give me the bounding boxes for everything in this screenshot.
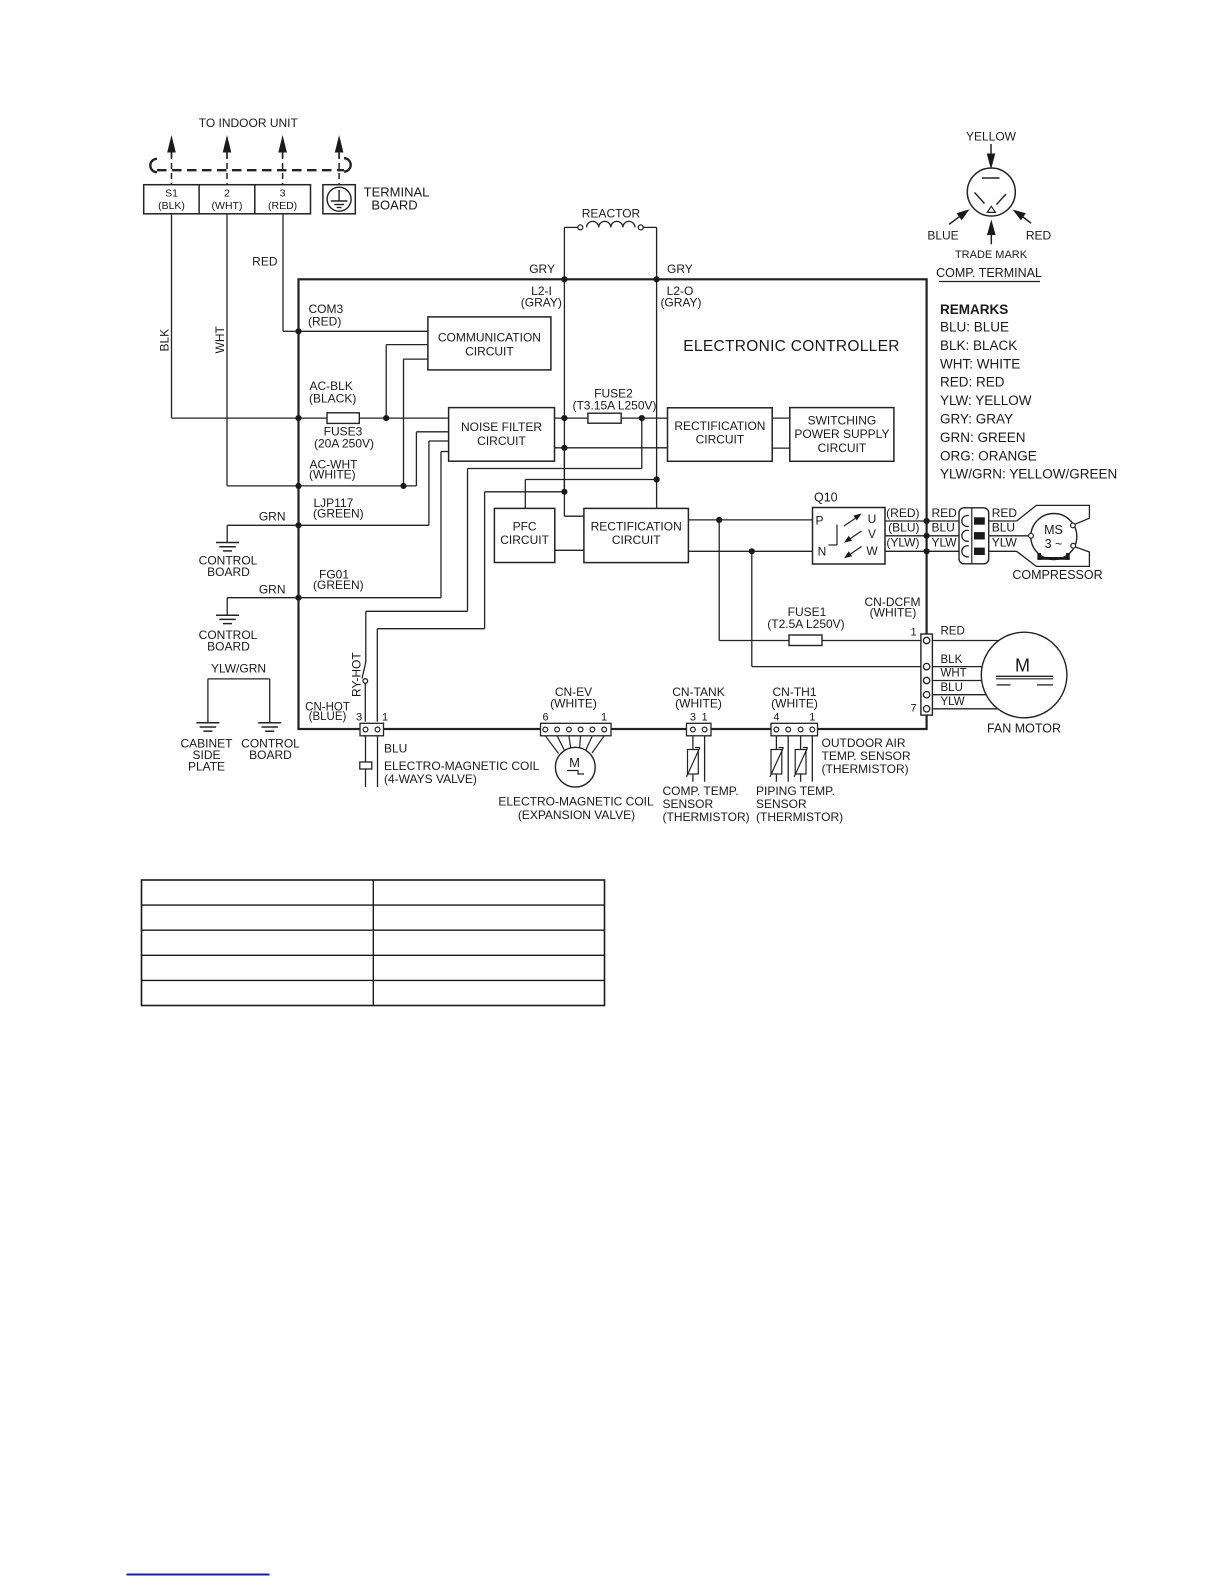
svg-text:PIPING TEMP.: PIPING TEMP.	[756, 784, 835, 798]
svg-text:BOARD: BOARD	[207, 565, 250, 579]
svg-text:YLW: YLW	[992, 536, 1018, 550]
svg-text:BLU: BLU	[932, 521, 955, 535]
svg-text:RED: RED	[941, 626, 965, 638]
svg-text:(BLK): (BLK)	[158, 200, 185, 212]
svg-text:1: 1	[809, 712, 815, 724]
svg-text:COMP. TERMINAL: COMP. TERMINAL	[936, 266, 1042, 280]
svg-text:CIRCUIT: CIRCUIT	[612, 533, 661, 547]
svg-text:3: 3	[280, 188, 286, 200]
svg-text:(WHITE): (WHITE)	[309, 467, 356, 481]
svg-text:BLU: BLU	[992, 521, 1015, 535]
svg-text:NOISE FILTER: NOISE FILTER	[461, 420, 542, 434]
svg-text:TO INDOOR UNIT: TO INDOOR UNIT	[199, 116, 299, 130]
svg-text:RECTIFICATION: RECTIFICATION	[591, 520, 682, 534]
svg-text:2: 2	[224, 188, 230, 200]
svg-text:FAN MOTOR: FAN MOTOR	[987, 722, 1061, 736]
svg-text:M: M	[1015, 656, 1030, 676]
svg-text:(BLACK): (BLACK)	[309, 392, 356, 406]
svg-text:WHT: WHITE: WHT: WHITE	[940, 356, 1020, 371]
svg-text:WHT: WHT	[213, 326, 227, 354]
svg-text:BLU: BLU	[941, 682, 963, 694]
svg-text:RED: RED	[992, 506, 1018, 520]
svg-text:ORG: ORANGE: ORG: ORANGE	[940, 448, 1037, 463]
svg-text:(GREEN): (GREEN)	[313, 507, 364, 521]
svg-text:REMARKS: REMARKS	[940, 302, 1008, 317]
svg-text:GRN: GREEN: GRN: GREEN	[940, 430, 1026, 445]
svg-text:(T3.15A L250V): (T3.15A L250V)	[572, 399, 656, 413]
svg-text:YLW/GRN: YLW/GRN	[211, 662, 266, 676]
svg-text:S1: S1	[165, 188, 178, 200]
svg-text:YLW: YELLOW: YLW: YELLOW	[940, 393, 1032, 408]
svg-text:Q10: Q10	[814, 491, 838, 505]
svg-text:YLW: YLW	[941, 696, 965, 708]
svg-text:BLK: BLK	[941, 654, 963, 666]
svg-text:(20A 250V): (20A 250V)	[314, 437, 374, 451]
svg-text:(WHITE): (WHITE)	[550, 697, 597, 711]
svg-text:(WHT): (WHT)	[212, 200, 243, 212]
svg-text:OUTDOOR AIR: OUTDOOR AIR	[822, 736, 906, 750]
svg-text:BLUE: BLUE	[927, 229, 958, 243]
svg-text:CIRCUIT: CIRCUIT	[465, 345, 514, 359]
svg-text:ELECTRO-MAGNETIC COIL: ELECTRO-MAGNETIC COIL	[384, 759, 540, 773]
svg-text:V: V	[868, 527, 876, 541]
svg-text:SWITCHING: SWITCHING	[808, 414, 877, 428]
svg-text:TRADE MARK: TRADE MARK	[955, 249, 1028, 261]
svg-text:GRY: GRY	[529, 262, 555, 276]
svg-text:CIRCUIT: CIRCUIT	[477, 434, 526, 448]
svg-text:(RED): (RED)	[308, 315, 341, 329]
svg-text:U: U	[868, 512, 877, 526]
svg-text:RECTIFICATION: RECTIFICATION	[674, 419, 765, 433]
svg-text:CIRCUIT: CIRCUIT	[696, 433, 745, 447]
svg-text:BOARD: BOARD	[207, 640, 250, 654]
svg-text:P: P	[815, 514, 823, 528]
svg-text:REACTOR: REACTOR	[582, 207, 641, 221]
svg-text:ELECTRO-MAGNETIC COIL: ELECTRO-MAGNETIC COIL	[498, 795, 654, 809]
svg-text:PFC: PFC	[513, 520, 537, 534]
svg-text:POWER SUPPLY: POWER SUPPLY	[794, 427, 889, 441]
svg-text:3: 3	[356, 712, 362, 724]
svg-text:GRY: GRY	[667, 262, 693, 276]
svg-text:BLK: BLACK: BLK: BLACK	[940, 338, 1017, 353]
svg-text:N: N	[818, 545, 827, 559]
svg-text:1: 1	[601, 712, 607, 724]
svg-text:(GREEN): (GREEN)	[313, 578, 364, 592]
svg-text:TEMP. SENSOR: TEMP. SENSOR	[822, 749, 911, 763]
svg-text:3: 3	[690, 712, 696, 724]
svg-text:7: 7	[910, 703, 916, 715]
svg-text:1: 1	[382, 712, 388, 724]
svg-text:CIRCUIT: CIRCUIT	[500, 533, 549, 547]
svg-text:(BLUE): (BLUE)	[309, 711, 347, 723]
svg-text:(YLW): (YLW)	[886, 536, 919, 550]
svg-text:(WHITE): (WHITE)	[771, 697, 818, 711]
svg-text:BLK: BLK	[158, 329, 172, 352]
svg-text:CIRCUIT: CIRCUIT	[818, 441, 867, 455]
svg-text:ELECTRONIC CONTROLLER: ELECTRONIC CONTROLLER	[683, 338, 899, 355]
svg-text:4: 4	[773, 712, 779, 724]
svg-text:RED: RED	[1026, 229, 1052, 243]
svg-text:BOARD: BOARD	[249, 748, 292, 762]
svg-text:1: 1	[702, 712, 708, 724]
svg-text:RED: RED	[252, 255, 278, 269]
svg-text:RY-HOT: RY-HOT	[350, 652, 364, 697]
svg-text:GRN: GRN	[259, 510, 286, 524]
svg-text:(THERMISTOR): (THERMISTOR)	[822, 762, 909, 776]
svg-text:BLU: BLUE: BLU: BLUE	[940, 320, 1009, 335]
svg-text:(EXPANSION VALVE): (EXPANSION VALVE)	[518, 808, 635, 822]
svg-text:COMMUNICATION: COMMUNICATION	[438, 331, 541, 345]
svg-text:YELLOW: YELLOW	[966, 130, 1017, 144]
svg-text:(THERMISTOR): (THERMISTOR)	[663, 810, 750, 824]
svg-text:SENSOR: SENSOR	[663, 797, 714, 811]
svg-text:(GRAY): (GRAY)	[521, 296, 562, 310]
svg-text:6: 6	[542, 712, 548, 724]
svg-text:WHT: WHT	[941, 668, 967, 680]
svg-text:COMP. TEMP.: COMP. TEMP.	[663, 784, 739, 798]
svg-text:YLW/GRN: YELLOW/GREEN: YLW/GRN: YELLOW/GREEN	[940, 467, 1117, 482]
svg-text:BOARD: BOARD	[371, 197, 417, 212]
svg-text:(4-WAYS VALVE): (4-WAYS VALVE)	[384, 772, 477, 786]
svg-text:COMPRESSOR: COMPRESSOR	[1012, 568, 1102, 582]
svg-text:RED: RED	[932, 506, 958, 520]
svg-text:BLU: BLU	[384, 742, 407, 756]
svg-text:(THERMISTOR): (THERMISTOR)	[756, 810, 843, 824]
svg-text:PLATE: PLATE	[188, 760, 225, 774]
svg-text:(BLU): (BLU)	[888, 521, 919, 535]
svg-text:(RED): (RED)	[268, 200, 297, 212]
svg-text:W: W	[866, 544, 878, 558]
svg-text:(GRAY): (GRAY)	[660, 296, 701, 310]
svg-text:RED: RED: RED: RED	[940, 375, 1005, 390]
svg-text:GRY: GRAY: GRY: GRAY	[940, 412, 1013, 427]
svg-text:1: 1	[910, 627, 916, 639]
svg-text:(WHITE): (WHITE)	[870, 606, 917, 620]
svg-text:3 ~: 3 ~	[1045, 537, 1063, 551]
svg-text:GRN: GRN	[259, 583, 286, 597]
svg-text:M: M	[569, 755, 580, 770]
svg-text:MS: MS	[1044, 523, 1063, 537]
svg-text:YLW: YLW	[932, 536, 958, 550]
svg-text:(RED): (RED)	[886, 506, 919, 520]
svg-text:(T2.5A L250V): (T2.5A L250V)	[767, 617, 844, 631]
svg-text:(WHITE): (WHITE)	[675, 697, 722, 711]
svg-text:SENSOR: SENSOR	[756, 797, 807, 811]
